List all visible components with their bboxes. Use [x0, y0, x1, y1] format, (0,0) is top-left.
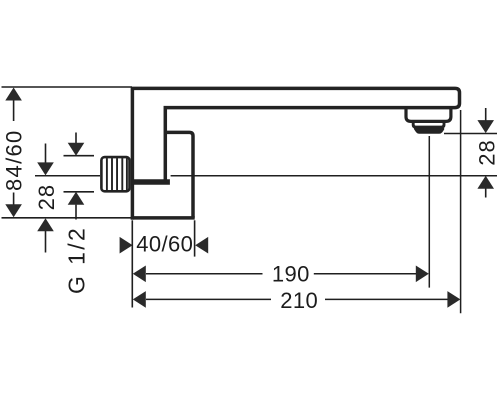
extension line 40/60 right (x=194.6): [194, 220, 196, 256]
centerline left segment: [35, 175, 100, 177]
extension line nozzle centre (x=429.3): [428, 136, 430, 288]
dim G1/2 top arrow: [75, 133, 77, 144]
dim 84/60 arrow up: [5, 88, 22, 101]
nozzle tier1: [406, 108, 451, 122]
dim 40/60 right arrow (outside, points left): [195, 237, 208, 254]
threaded nipple G1/2 body: [101, 157, 129, 191]
extension line top (y=87): [2, 86, 133, 88]
svg-text:84/60: 84/60: [1, 129, 26, 191]
nozzle tier2: [413, 122, 444, 127]
centerline main segment: [171, 175, 497, 177]
dim 210 left arrow: [133, 291, 146, 308]
dim 190 right arrow: [416, 266, 429, 283]
dim 84/60 line segments: [13, 100, 15, 205]
dim 210 right arrow: [447, 291, 460, 308]
flange bottom thick line: [131, 216, 195, 220]
svg-text:40/60: 40/60: [136, 232, 193, 257]
G1/2 tick top: [64, 155, 95, 157]
extension line nozzle outlet (y=132.2): [444, 133, 497, 135]
nipple knurl lines: [107, 158, 127, 190]
nozzle aerator cap (filled): [414, 128, 443, 133]
dim 210 line: [146, 298, 448, 300]
dim 28 left: bottom arrow (points up to flange bottom): [45, 231, 47, 253]
bracket foot G (thick short horizontal): [131, 179, 170, 185]
svg-text:28: 28: [474, 139, 499, 166]
dim 190 line: [146, 273, 416, 275]
dim 28 right: top arrow: [485, 108, 487, 121]
dim 190 left arrow: [133, 266, 146, 283]
inner bracket F/E (step to flange bottom): [164, 132, 193, 217]
G1/2 tick bottom: [64, 191, 95, 193]
extension line left vertical (x=132.3): [131, 220, 133, 307]
dim 28 right: bottom arrow: [485, 188, 487, 197]
dim 40/60 left arrow (outside, points right): [120, 237, 133, 254]
svg-text:G 1/2: G 1/2: [64, 226, 90, 294]
extension line flange bottom (y=217.8): [2, 217, 132, 219]
dim G1/2 bottom arrow: [75, 205, 77, 220]
svg-text:210: 210: [280, 288, 318, 313]
spout body outline (left flange edge, top, right end, arm bottom, drop to bracket): [132, 88, 459, 219]
dim 28 left: top arrow (points down to centerline): [45, 144, 47, 164]
dim 84/60 arrow down: [5, 204, 22, 217]
svg-text:28: 28: [34, 184, 59, 211]
extension line arm right (x=461.2): [460, 110, 462, 313]
svg-text:190: 190: [272, 262, 310, 287]
